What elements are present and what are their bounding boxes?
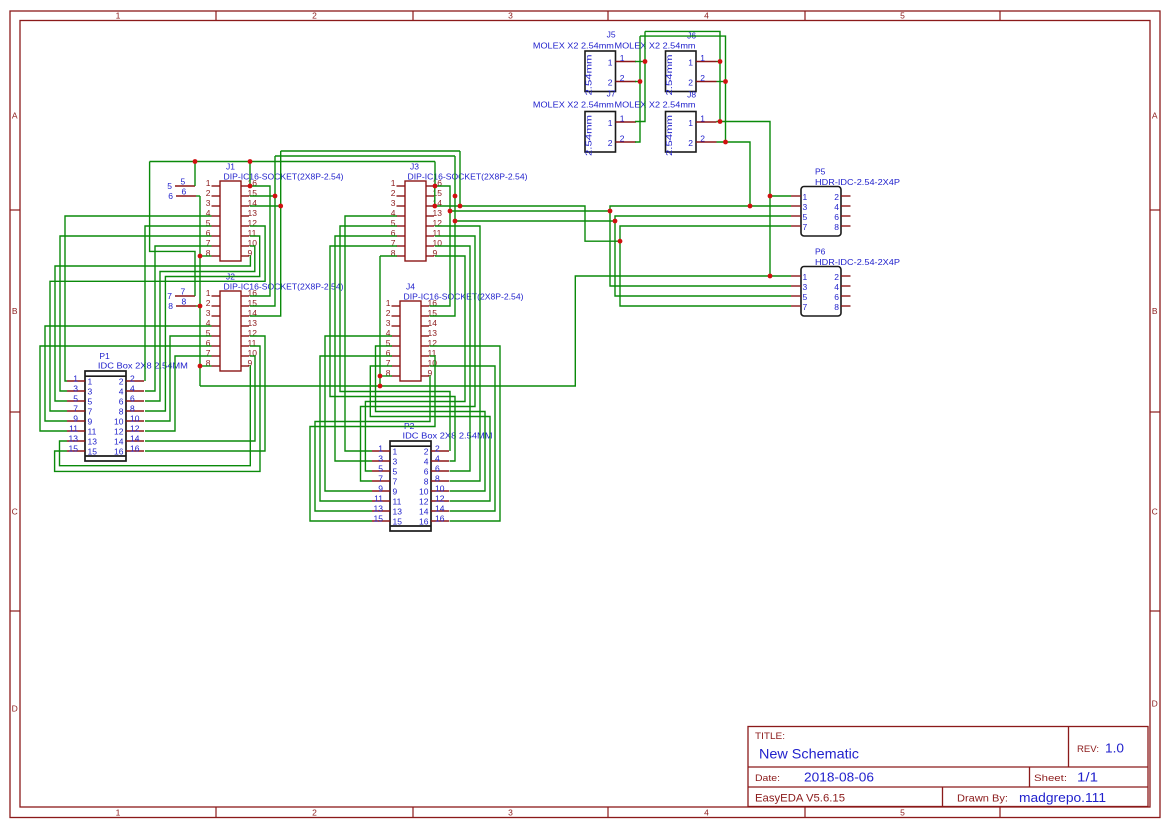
- wire net6-8 vertical x200: [199, 196, 201, 386]
- connector J5 MOLEX X2 2.54mm: [584, 51, 616, 96]
- svg-text:A: A: [12, 111, 18, 121]
- wire netport5 riser: [194, 162, 196, 187]
- svg-text:14: 14: [428, 318, 438, 328]
- svg-text:13: 13: [433, 208, 443, 218]
- connector J7 MOLEX X2 2.54mm: [584, 112, 616, 157]
- svg-text:10: 10: [435, 484, 445, 494]
- J2 value label DIP-IC16-SOCKET(2X8P-2.54): [224, 282, 344, 292]
- svg-text:11: 11: [393, 497, 402, 507]
- svg-text:16: 16: [419, 517, 429, 527]
- svg-text:1: 1: [88, 377, 93, 387]
- wire J1.9 to P1.5: [55, 256, 250, 401]
- svg-text:4: 4: [834, 282, 839, 292]
- svg-text:3: 3: [393, 457, 398, 467]
- svg-text:New Schematic: New Schematic: [759, 746, 859, 762]
- wire net5-7 left drop: [150, 162, 195, 297]
- svg-text:2: 2: [688, 78, 693, 88]
- svg-text:TITLE:: TITLE:: [755, 731, 785, 742]
- wire J3.15 drop to J4.15: [430, 156, 456, 316]
- connector J8 MOLEX X2 2.54mm: [664, 112, 696, 157]
- svg-text:J3: J3: [410, 162, 419, 172]
- svg-text:P6: P6: [815, 247, 826, 257]
- wire J4.10 to P2.14: [430, 366, 496, 511]
- svg-text:2.54mm: 2.54mm: [584, 55, 594, 96]
- wire J2.8 link: [200, 365, 212, 367]
- wire J2.11 to P1.15: [55, 346, 260, 471]
- wire netport6 link: [196, 195, 200, 197]
- P1 reference label: [99, 351, 110, 361]
- ruler column labels top: [116, 10, 906, 20]
- svg-text:3: 3: [391, 198, 396, 208]
- svg-text:8: 8: [435, 474, 440, 484]
- svg-text:J8: J8: [687, 90, 696, 100]
- wire net1 top rail: [645, 31, 720, 121]
- wire J3.16 drop: [434, 162, 436, 187]
- wire net15 riser to P5.5: [615, 216, 791, 221]
- svg-text:1: 1: [688, 58, 693, 68]
- svg-text:5: 5: [88, 397, 93, 407]
- P6 pin stubs: [791, 276, 851, 306]
- svg-text:5: 5: [803, 212, 808, 222]
- P6 pin numbers: [803, 272, 840, 312]
- junction at 720,121.5: [718, 119, 723, 124]
- wire J2.5 to P1.10: [145, 336, 212, 421]
- P5 value label HDR-IDC-2.54-2X4P: [815, 177, 900, 187]
- svg-text:1: 1: [206, 178, 211, 188]
- svg-text:13: 13: [88, 437, 98, 447]
- svg-text:2: 2: [312, 807, 317, 817]
- svg-text:5: 5: [803, 292, 808, 302]
- svg-text:2: 2: [391, 188, 396, 198]
- wire J1.15 rail y156: [275, 155, 455, 157]
- J1 pin stubs: [212, 186, 250, 256]
- svg-text:9: 9: [73, 414, 78, 424]
- svg-text:15: 15: [393, 517, 403, 527]
- svg-text:7: 7: [803, 302, 808, 312]
- wire J5.1 wire: [635, 61, 645, 63]
- J4 pin stubs: [392, 306, 430, 376]
- J7 reference label: [607, 89, 616, 99]
- svg-text:C: C: [1152, 507, 1158, 517]
- svg-text:5: 5: [73, 394, 78, 404]
- wire J1.14 stub link: [250, 205, 281, 207]
- junction at 750,206: [748, 204, 753, 209]
- svg-text:madgrepo.111: madgrepo.111: [1019, 791, 1106, 805]
- svg-text:12: 12: [130, 424, 140, 434]
- junction at 460,206: [458, 204, 463, 209]
- svg-text:3: 3: [803, 282, 808, 292]
- wire J3.8 drop: [380, 255, 397, 257]
- svg-text:11: 11: [374, 494, 383, 504]
- J4 reference label: [406, 282, 415, 292]
- wire J5.2-J7.2 vertical: [635, 36, 640, 142]
- J2 reference label: [226, 272, 235, 282]
- wire J6.2 link: [717, 81, 726, 83]
- wire J3.9 to P2.5: [365, 256, 465, 471]
- J3 pin numbers: [391, 178, 442, 258]
- P1 value label IDC Box 2X8 2.54MM: [98, 361, 188, 371]
- P1 pin stubs: [67, 381, 144, 451]
- svg-text:5: 5: [167, 181, 172, 191]
- svg-text:10: 10: [419, 487, 429, 497]
- wire J4.4 to P2.9: [325, 336, 392, 491]
- svg-text:6: 6: [435, 464, 440, 474]
- svg-text:13: 13: [248, 208, 258, 218]
- J6 reference label: [687, 31, 696, 41]
- wire J8.2 run to P5.3: [717, 142, 751, 206]
- wire J1.4 to P1.1: [65, 216, 212, 381]
- svg-text:2: 2: [700, 133, 705, 143]
- wire J1.8 link: [200, 255, 212, 257]
- svg-text:3: 3: [378, 454, 383, 464]
- wire J3.7 to P2.4: [330, 246, 455, 461]
- junction at 200,306: [198, 304, 203, 309]
- svg-text:2: 2: [834, 192, 839, 202]
- J4 pin numbers: [386, 298, 437, 378]
- svg-text:C: C: [12, 507, 18, 517]
- svg-text:13: 13: [393, 507, 403, 517]
- svg-text:7: 7: [88, 407, 93, 417]
- J8 value label MOLEX X2 2.54mm: [615, 100, 696, 110]
- svg-text:DIP-IC16-SOCKET(2X8P-2.54): DIP-IC16-SOCKET(2X8P-2.54): [224, 172, 344, 182]
- junction at 610,211: [608, 209, 613, 214]
- wire J4.9 to P2.13: [315, 376, 430, 511]
- P6 value label HDR-IDC-2.54-2X4P: [815, 257, 900, 267]
- svg-text:5: 5: [378, 464, 383, 474]
- junction at 280.7,206: [278, 204, 283, 209]
- junction at 725.5,81.5: [723, 79, 728, 84]
- wire J1.15 riser/J2.15 drop: [250, 156, 275, 306]
- svg-text:7: 7: [378, 474, 383, 484]
- wire net8 run y386: [200, 276, 770, 386]
- wire J1.14 riser/J2.14 drop: [250, 151, 281, 316]
- wire J2.12 to P1.16: [145, 336, 265, 451]
- svg-text:7: 7: [181, 287, 186, 297]
- svg-text:MOLEX X2 2.54mm: MOLEX X2 2.54mm: [533, 100, 614, 110]
- junction at 435,186: [433, 184, 438, 189]
- J6 pin stubs: [696, 62, 717, 82]
- wire J3.5 to P2.2: [340, 226, 450, 451]
- svg-text:8: 8: [119, 407, 124, 417]
- svg-text:15: 15: [88, 447, 98, 457]
- wire J3.6 to P2.3: [335, 236, 397, 461]
- svg-text:14: 14: [114, 437, 124, 447]
- wire J4.7 to P2.12: [370, 366, 490, 501]
- svg-text:4: 4: [704, 807, 709, 817]
- svg-text:DIP-IC16-SOCKET(2X8P-2.54): DIP-IC16-SOCKET(2X8P-2.54): [224, 282, 344, 292]
- connector J2 DIP-IC16-SOCKET(2X8P-2.54): [220, 291, 241, 371]
- J2 pin stubs: [212, 296, 250, 366]
- svg-text:6: 6: [119, 397, 124, 407]
- svg-text:4: 4: [424, 457, 429, 467]
- P5 reference label: [815, 167, 826, 177]
- wire J1.10 to P1.6: [145, 246, 255, 401]
- svg-text:Sheet:: Sheet:: [1034, 773, 1067, 784]
- wire J1.14 rail y151: [281, 150, 460, 152]
- J6 value label MOLEX X2 2.54mm: [615, 41, 696, 51]
- connector J6 MOLEX X2 2.54mm: [664, 51, 696, 96]
- svg-text:2: 2: [130, 374, 135, 384]
- svg-text:1: 1: [620, 113, 625, 123]
- junction at 200,256: [198, 254, 203, 259]
- svg-text:13: 13: [248, 318, 258, 328]
- svg-text:REV:: REV:: [1077, 744, 1099, 755]
- svg-text:3: 3: [206, 198, 211, 208]
- svg-text:D: D: [1152, 699, 1158, 709]
- svg-text:4: 4: [130, 384, 135, 394]
- wire J1.6 to P1.3: [60, 236, 212, 391]
- svg-text:16: 16: [114, 447, 124, 457]
- J5 pin numbers: [608, 53, 625, 88]
- svg-text:5: 5: [900, 807, 905, 817]
- wire J5.2 wire: [635, 81, 640, 83]
- wire J6.1 link: [717, 61, 721, 63]
- J4 value label DIP-IC16-SOCKET(2X8P-2.54): [404, 292, 524, 302]
- svg-text:13: 13: [428, 328, 438, 338]
- svg-text:14: 14: [419, 507, 429, 517]
- svg-text:B: B: [1152, 306, 1158, 316]
- svg-text:3: 3: [508, 807, 513, 817]
- P1 pin numbers: [69, 374, 140, 457]
- wire J4.11 to P2.15: [310, 356, 435, 521]
- svg-text:P5: P5: [815, 167, 826, 177]
- svg-text:8: 8: [182, 297, 187, 307]
- wire J1.11 to P1.8: [145, 236, 260, 411]
- svg-text:J1: J1: [226, 162, 235, 172]
- svg-text:16: 16: [130, 444, 140, 454]
- svg-text:4: 4: [704, 10, 709, 20]
- svg-text:4: 4: [119, 387, 124, 397]
- P5 pin stubs: [791, 196, 851, 226]
- wire P5.1 link: [770, 195, 791, 197]
- svg-text:1: 1: [688, 118, 693, 128]
- wire J1.5 to P1.2: [145, 226, 212, 381]
- svg-text:2: 2: [119, 377, 124, 387]
- svg-text:J5: J5: [607, 30, 616, 40]
- svg-text:DIP-IC16-SOCKET(2X8P-2.54): DIP-IC16-SOCKET(2X8P-2.54): [404, 292, 524, 302]
- wire net2 top rail: [640, 36, 726, 142]
- junction at 455,221: [453, 219, 458, 224]
- svg-text:1: 1: [620, 53, 625, 63]
- svg-text:2018-08-06: 2018-08-06: [804, 771, 874, 785]
- svg-text:12: 12: [419, 497, 429, 507]
- wire J4.5 to P2.10: [376, 346, 486, 491]
- wire J3.14 run east: [435, 206, 620, 241]
- J1 value label DIP-IC16-SOCKET(2X8P-2.54): [224, 172, 344, 182]
- svg-text:6: 6: [182, 187, 187, 197]
- svg-text:1: 1: [386, 298, 391, 308]
- junction at 380,386: [378, 384, 383, 389]
- J1 pin numbers: [206, 178, 257, 258]
- connector J4 DIP-IC16-SOCKET(2X8P-2.54): [400, 301, 421, 381]
- J6 pin numbers: [688, 53, 705, 88]
- svg-text:4: 4: [435, 454, 440, 464]
- P2 value label IDC Box 2X8 2.54MM: [403, 431, 493, 441]
- wire netport8 link: [196, 305, 200, 307]
- svg-text:2: 2: [312, 10, 317, 20]
- svg-text:5: 5: [181, 177, 186, 187]
- junction at 620,241.2: [618, 239, 623, 244]
- svg-text:1.0: 1.0: [1105, 742, 1124, 756]
- svg-text:11: 11: [88, 427, 97, 437]
- wire P6.1 link: [770, 275, 791, 277]
- J5 value label MOLEX X2 2.54mm: [533, 41, 614, 51]
- svg-text:2: 2: [206, 188, 211, 198]
- svg-text:6: 6: [834, 292, 839, 302]
- J3 pin stubs: [397, 186, 435, 256]
- svg-text:2.54mm: 2.54mm: [664, 55, 674, 96]
- wire net5-7 top rail y161: [150, 161, 435, 163]
- svg-text:2: 2: [620, 133, 625, 143]
- wire J2.10 to P1.14: [145, 356, 255, 441]
- svg-text:2: 2: [206, 298, 211, 308]
- svg-text:9: 9: [378, 484, 383, 494]
- svg-text:13: 13: [374, 504, 384, 514]
- net port 8: [168, 297, 196, 312]
- junction at 250,186: [248, 184, 253, 189]
- J2 pin numbers: [206, 288, 257, 368]
- svg-text:2: 2: [688, 138, 693, 148]
- svg-text:12: 12: [114, 427, 124, 437]
- svg-text:7: 7: [73, 404, 78, 414]
- svg-text:10: 10: [114, 417, 124, 427]
- J3 reference label: [410, 162, 419, 172]
- P6 reference label: [815, 247, 826, 257]
- svg-text:8: 8: [168, 301, 173, 311]
- J8 pin numbers: [688, 113, 705, 148]
- net port 5: [167, 177, 195, 192]
- svg-text:12: 12: [435, 494, 445, 504]
- svg-text:5: 5: [900, 10, 905, 20]
- connector J3 DIP-IC16-SOCKET(2X8P-2.54): [405, 181, 426, 261]
- junction at 455,196: [453, 194, 458, 199]
- svg-text:13: 13: [69, 434, 79, 444]
- wire J1.15 stub link: [250, 195, 275, 197]
- svg-text:J7: J7: [607, 89, 616, 99]
- svg-text:IDC Box 2X8 2.54MM: IDC Box 2X8 2.54MM: [403, 431, 493, 441]
- svg-text:7: 7: [393, 477, 398, 487]
- J8 reference label: [687, 90, 696, 100]
- wire J3.16 to J4.16: [430, 186, 451, 306]
- svg-text:1: 1: [608, 118, 613, 128]
- svg-text:4: 4: [834, 202, 839, 212]
- svg-text:MOLEX X2 2.54mm: MOLEX X2 2.54mm: [615, 100, 696, 110]
- junction at 720,61.5: [718, 59, 723, 64]
- P2 pin stubs: [372, 451, 449, 521]
- wire J3.8 to J4.8: [379, 256, 381, 386]
- svg-text:6: 6: [130, 394, 135, 404]
- svg-text:6: 6: [424, 467, 429, 477]
- wire net16 run to P5.3: [450, 206, 791, 211]
- wire J3.14 drop: [459, 151, 461, 206]
- connector J1 DIP-IC16-SOCKET(2X8P-2.54): [220, 181, 241, 261]
- svg-text:HDR-IDC-2.54-2X4P: HDR-IDC-2.54-2X4P: [815, 177, 900, 187]
- wire net14 riser to P5.7: [620, 226, 791, 241]
- wire J3.16-J3.14 link: [434, 186, 436, 206]
- junction at 615,221: [613, 219, 618, 224]
- svg-text:1: 1: [393, 447, 398, 457]
- svg-text:8: 8: [834, 222, 839, 232]
- svg-text:15: 15: [69, 444, 79, 454]
- svg-text:MOLEX X2 2.54mm: MOLEX X2 2.54mm: [533, 41, 614, 51]
- svg-text:1: 1: [803, 192, 808, 202]
- junction at 195,161.5: [193, 159, 198, 164]
- wire net14 drop to P6.7: [620, 241, 791, 306]
- wire net16 drop to P6.3: [610, 211, 791, 286]
- svg-text:15: 15: [433, 188, 443, 198]
- wire J1.16 to J2.16: [250, 186, 270, 296]
- junction at 250,161.5: [248, 159, 253, 164]
- svg-text:P1: P1: [99, 351, 110, 361]
- junction at 770,196: [768, 194, 773, 199]
- J1 reference label: [226, 162, 235, 172]
- J7 pin numbers: [608, 113, 625, 148]
- svg-text:10: 10: [130, 414, 140, 424]
- svg-text:2: 2: [620, 73, 625, 83]
- wire J3.11 to P2.7: [361, 236, 476, 481]
- svg-text:1: 1: [700, 53, 705, 63]
- wire J1.12 to P1.7: [50, 226, 265, 411]
- J3 value label DIP-IC16-SOCKET(2X8P-2.54): [408, 172, 528, 182]
- svg-text:6: 6: [834, 212, 839, 222]
- svg-text:9: 9: [393, 487, 398, 497]
- junction at 640,81.5: [638, 79, 643, 84]
- svg-text:2.54mm: 2.54mm: [664, 115, 674, 156]
- svg-text:3: 3: [206, 308, 211, 318]
- svg-text:14: 14: [435, 504, 445, 514]
- svg-text:2: 2: [608, 138, 613, 148]
- svg-text:EasyEDA V5.6.15: EasyEDA V5.6.15: [755, 793, 845, 805]
- svg-text:1: 1: [116, 10, 121, 20]
- connector P2 IDC Box 2X8 2.54MM: [390, 441, 431, 531]
- svg-text:1/1: 1/1: [1077, 771, 1098, 785]
- wire J2.7 to P1.12: [145, 356, 212, 431]
- svg-text:1: 1: [206, 288, 211, 298]
- svg-text:2: 2: [435, 444, 440, 454]
- svg-text:2: 2: [608, 78, 613, 88]
- svg-text:3: 3: [508, 10, 513, 20]
- svg-text:6: 6: [168, 191, 173, 201]
- net port 6: [168, 187, 196, 202]
- wire J1.16 riser: [249, 162, 251, 187]
- svg-text:3: 3: [803, 202, 808, 212]
- junction at 200,366: [198, 364, 203, 369]
- svg-text:11: 11: [69, 424, 78, 434]
- P5 pin numbers: [803, 192, 840, 232]
- svg-text:9: 9: [88, 417, 93, 427]
- wire net15 run y221: [455, 220, 615, 222]
- wire J2.9 to P1.13: [60, 366, 251, 466]
- J5 pin stubs: [616, 62, 637, 82]
- wire J4.12 to P2.16: [430, 346, 501, 521]
- wire J3.4 to P2.1: [345, 216, 397, 451]
- wire J8.1 run to P5.1: [717, 122, 771, 277]
- wire J1.7 to P1.4: [145, 246, 212, 391]
- wire J5.1-J7.1 vertical: [635, 31, 645, 121]
- wire J2.6 to P1.11: [40, 346, 212, 431]
- svg-text:2: 2: [700, 73, 705, 83]
- svg-text:1: 1: [700, 113, 705, 123]
- svg-text:3: 3: [88, 387, 93, 397]
- junction at 725.5,142: [723, 140, 728, 145]
- wire J3.10 to P2.6: [435, 246, 470, 471]
- J5 reference label: [607, 30, 616, 40]
- junction at 275,196: [273, 194, 278, 199]
- svg-text:14: 14: [130, 434, 140, 444]
- svg-text:8: 8: [834, 302, 839, 312]
- svg-text:2: 2: [834, 272, 839, 282]
- svg-text:8: 8: [130, 404, 135, 414]
